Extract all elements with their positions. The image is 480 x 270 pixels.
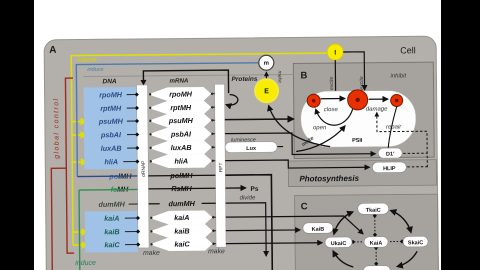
svg-text:luxAB: luxAB [171,143,192,152]
yellow arrow kaiC [73,244,87,246]
svg-text:psuMH: psuMH [98,117,124,126]
svg-text:repair: repair [386,124,402,130]
RNAP bar [137,85,150,248]
wire psbAI to D1 [225,132,375,155]
UkaiC pill [325,237,352,248]
red circle damaged [391,94,403,106]
svg-text:excite: excite [329,76,335,90]
make arrow E to m [265,76,267,80]
svg-text:make: make [276,71,282,84]
recycle loop arrow [226,95,238,106]
svg-text:B: B [300,70,307,81]
svg-text:m: m [264,61,269,67]
panel B box [293,62,434,158]
kai cycle arcs [334,212,353,234]
svg-text:mRNA: mRNA [169,77,189,84]
svg-text:induce: induce [75,260,96,267]
make curve into PSII [296,126,345,151]
wire green fsMH row [79,188,137,191]
svg-text:DNA: DNA [102,78,116,85]
wire navy poMH row [77,175,137,178]
green induce control line [78,190,81,270]
svg-text:Proteins: Proteins [231,76,257,83]
wire fsMH mRNA strike [149,187,216,190]
DNA upper blue box [84,87,138,170]
svg-text:HLIP: HLIP [383,166,396,172]
svg-text:make: make [208,248,225,255]
svg-text:σRNAP: σRNAP [141,161,147,177]
cell outer rounded box [44,36,438,270]
wire l down excite [334,60,336,98]
svg-text:rptMH: rptMH [170,103,192,112]
KaiB pill [303,223,333,234]
panel C box [295,194,439,270]
wire kaiC to UkaiC [226,242,322,245]
wire dumMH mRNA stubs [149,203,160,205]
svg-text:psbAI: psbAI [170,129,192,138]
mRNA diamond kaiA [149,210,212,224]
svg-text:A: A [49,45,56,56]
mRNA diamond kaiB [149,224,212,238]
mRNA diamond kaiC [149,237,212,251]
panel A inner border [83,74,293,76]
junction dots at diamond tips [149,93,215,246]
wire dumMH down arrow [226,203,267,256]
svg-text:divide: divide [240,195,256,201]
dotted KaiA links [353,216,402,263]
wire poMH row turn down [225,175,272,270]
wire poMH mRNA strike [148,174,215,177]
svg-text:hliA: hliA [104,157,118,166]
wire luxAB [225,146,283,149]
arrow close [321,97,345,99]
yellow arrow psbAI [72,134,86,136]
svg-text:KaiA: KaiA [370,241,383,247]
transcription bracket arrow [143,70,228,94]
photosynthesis band [288,160,436,187]
wire l right excite [343,52,364,90]
DNA lower blue box [85,211,138,253]
m circle [259,55,274,70]
svg-text:excite: excite [359,76,365,90]
yellow arrow kaiB [73,231,87,233]
svg-text:kaiA: kaiA [174,213,189,222]
light circle l [327,44,343,60]
curve damaged to D1 [388,106,397,148]
svg-text:rptMH: rptMH [100,104,122,113]
svg-text:hliA: hliA [174,157,188,166]
PSII blob [301,90,417,147]
dashed repair path [377,112,428,167]
arrow damage [369,98,388,100]
svg-text:kaiA: kaiA [104,214,119,223]
svg-text:rpoMH: rpoMH [99,90,123,99]
svg-text:KaiB: KaiB [312,227,325,233]
svg-text:induce: induce [87,67,103,73]
svg-text:D1': D1' [386,152,395,158]
mRNA diamond luxAB [149,140,212,154]
yellow induce control line [71,53,329,245]
svg-text:kaiC: kaiC [104,240,120,249]
svg-text:psuMH: psuMH [168,116,194,125]
HLIP pill [372,162,406,173]
bottom pill (cut) [363,266,390,270]
diamond junctions kai cycle [351,213,405,266]
mRNA diamond psbAI [148,127,211,141]
mRNA diamond rpoMH [148,87,211,101]
wire Ps arrow [226,187,246,189]
svg-text:E: E [264,88,269,95]
svg-text:Ps: Ps [250,186,258,193]
red global control line [65,78,74,253]
svg-text:Photosynthesis: Photosynthesis [299,174,359,184]
E circle [254,78,279,103]
yellow arrow psuMH [72,120,86,122]
svg-text:TkaiC: TkaiC [366,208,381,214]
svg-text:kaiB: kaiB [104,227,119,236]
KaiA pill [364,237,388,248]
junction diamonds on RNAP bar [135,92,141,246]
svg-text:close: close [324,107,339,113]
svg-text:induce: induce [77,57,97,63]
energy curve PSII to E [269,105,330,147]
svg-text:kaiB: kaiB [174,226,189,235]
SkaiC pill [403,236,428,247]
arrow open [316,109,353,125]
letter marks in red circles [312,99,316,103]
svg-text:dumMH: dumMH [98,200,125,209]
svg-text:Cell: Cell [400,45,416,55]
mRNA diamond rptMH [148,100,211,114]
svg-text:kaiC: kaiC [174,239,190,248]
svg-text:make: make [143,250,160,257]
svg-text:l: l [334,50,336,57]
mRNA diamond psuMH [148,113,211,127]
dashed from HLIP [407,166,427,168]
svg-text:dumMH: dumMH [168,199,195,208]
D1 pill [378,148,402,158]
blue induce control line [76,63,259,177]
dashed from D1 [403,152,427,154]
red circle closed [307,94,320,107]
Lux pill [225,142,277,153]
svg-text:damage: damage [366,107,388,113]
svg-text:inhibit: inhibit [390,73,406,79]
wire kaiA to KaiA [226,216,363,235]
wire row stubs DNA to RNAP [123,94,138,244]
wire hliA to HLIP [225,159,369,168]
wire psuMH to panel B [225,118,293,121]
svg-text:RPT: RPT [218,162,224,172]
TkaiC pill [358,203,389,214]
svg-text:SkaiC: SkaiC [408,240,423,246]
RPT bar [215,84,227,247]
wire kaiB to KaiB [226,229,300,232]
svg-text:luxAB: luxAB [101,144,122,153]
svg-text:UkaiC: UkaiC [331,241,347,247]
svg-text:rpoMH: rpoMH [169,89,193,98]
red circle open (big) [348,90,368,110]
svg-text:global control: global control [53,97,61,158]
svg-text:PSII: PSII [352,138,363,144]
mRNA diamond hliA [149,154,212,168]
svg-text:Lux: Lux [246,146,257,152]
yellow arrow hliA [72,161,86,163]
svg-text:open: open [313,125,327,131]
svg-text:C: C [301,201,308,212]
wire stubs diamond tips to RPT bar [211,94,216,244]
svg-text:psbAI: psbAI [100,130,122,139]
